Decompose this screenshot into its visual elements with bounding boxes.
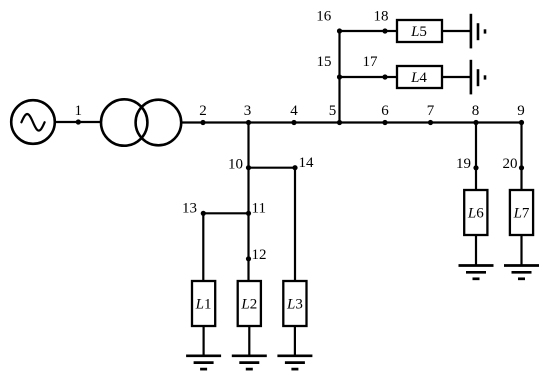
svg-text:8: 8 <box>472 103 480 119</box>
node 20 <box>503 156 525 172</box>
node 16 <box>316 9 342 34</box>
node 8 <box>472 103 480 125</box>
wire L4 to ground <box>442 76 470 78</box>
wire node 3 to node 4 <box>249 121 295 123</box>
wire node 10 to node 14 <box>249 167 296 169</box>
node 15 <box>317 54 343 80</box>
load L3 <box>283 281 306 326</box>
svg-text:L7: L7 <box>513 206 530 222</box>
svg-text:15: 15 <box>317 54 332 70</box>
svg-text:16: 16 <box>316 9 332 25</box>
wire L7 to ground <box>520 235 522 265</box>
node 12 <box>246 247 267 263</box>
wire node 15 to node 17 <box>340 76 386 78</box>
svg-text:19: 19 <box>456 156 471 172</box>
node 1 <box>75 103 83 125</box>
svg-text:L2: L2 <box>240 297 257 313</box>
svg-text:2: 2 <box>199 103 207 119</box>
node 18 <box>374 9 389 34</box>
wire L5 to ground <box>442 30 470 32</box>
wire node 17 to L4 <box>385 76 397 78</box>
wire L6 to ground <box>475 235 477 265</box>
ground below L3 <box>277 356 312 369</box>
ground below L1 <box>186 356 221 369</box>
load L7 <box>510 190 533 235</box>
node 6 <box>381 103 389 125</box>
wire node 15 to node 16 <box>338 31 340 77</box>
load L6 <box>464 190 487 235</box>
wire node 20 to L7 <box>520 168 522 190</box>
svg-text:6: 6 <box>381 103 389 119</box>
wire node 5 to node 15 <box>338 77 340 123</box>
svg-text:L5: L5 <box>410 24 427 40</box>
ground below L2 <box>232 356 267 369</box>
wire node 16 to node 18 <box>340 30 386 32</box>
wire L1 to ground <box>203 326 205 355</box>
svg-text:20: 20 <box>503 156 518 172</box>
svg-text:1: 1 <box>75 103 83 119</box>
wire node 13 to L1 <box>202 213 204 281</box>
wire L2 to ground <box>248 326 250 355</box>
wire node 18 to L5 <box>385 30 397 32</box>
svg-text:4: 4 <box>290 103 298 119</box>
node 10 <box>228 156 251 172</box>
wire source to node 1 <box>55 121 79 123</box>
node 19 <box>456 156 479 172</box>
svg-text:L3: L3 <box>286 297 303 313</box>
svg-text:7: 7 <box>427 103 435 119</box>
wire node 9 to node 20 <box>520 123 522 168</box>
wire node 10 to node 11 <box>247 168 249 214</box>
svg-text:5: 5 <box>329 103 337 119</box>
svg-text:18: 18 <box>374 9 389 25</box>
node 17 <box>363 54 388 80</box>
wire node 8 to node 9 <box>476 121 522 123</box>
node 3 <box>244 103 252 125</box>
wire transformer to node 2 <box>182 121 203 123</box>
load L4 <box>397 66 442 88</box>
node 14 <box>292 155 314 171</box>
wire L3 to ground <box>294 326 296 355</box>
node 11 <box>246 201 266 217</box>
transformer T1 <box>101 99 181 145</box>
load L1 <box>192 281 215 326</box>
node 13 <box>182 201 206 217</box>
node 4 <box>290 103 298 125</box>
wire node 19 to L6 <box>475 168 477 190</box>
wire node 12 to L2 <box>247 259 249 281</box>
node 9 <box>517 103 525 125</box>
svg-text:L4: L4 <box>410 70 427 86</box>
wire node 3 to node 10 <box>247 123 249 168</box>
svg-text:9: 9 <box>517 103 525 119</box>
svg-text:11: 11 <box>252 201 266 217</box>
svg-text:13: 13 <box>182 201 197 217</box>
node 7 <box>427 103 435 125</box>
wire node 4 to node 5 <box>294 121 340 123</box>
svg-text:14: 14 <box>299 155 315 171</box>
wire node 7 to node 8 <box>431 121 477 123</box>
svg-text:L1: L1 <box>195 297 212 313</box>
ground below L7 <box>504 266 539 279</box>
node 5 <box>329 103 342 125</box>
wire node 14 to L3 <box>294 168 296 281</box>
wire node 8 to node 19 <box>475 123 477 168</box>
ground below L6 <box>459 266 494 279</box>
svg-text:3: 3 <box>244 103 252 119</box>
wire node 6 to node 7 <box>385 121 431 123</box>
wire node 11 to node 12 <box>247 213 249 258</box>
wire node 1 to transformer <box>78 121 101 123</box>
ground (rotated) after L4 <box>471 60 485 95</box>
load L2 <box>238 281 261 326</box>
ground (rotated) after L5 <box>471 14 485 49</box>
AC source G1 <box>11 100 55 144</box>
wire node 5 to node 6 <box>340 121 386 123</box>
load L5 <box>397 20 442 42</box>
wire node 2 to node 3 <box>203 121 249 123</box>
svg-text:17: 17 <box>363 54 379 70</box>
svg-text:12: 12 <box>252 247 267 263</box>
node 2 <box>199 103 207 125</box>
wire node 11 to node 13 <box>203 212 248 214</box>
svg-text:L6: L6 <box>467 206 484 222</box>
svg-text:10: 10 <box>228 156 243 172</box>
